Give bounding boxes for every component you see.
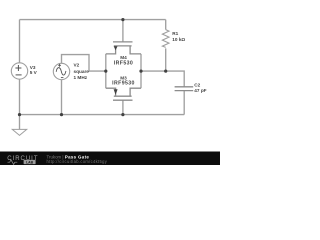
voltage source V2	[53, 63, 69, 79]
V2 labels	[74, 62, 90, 80]
junction V3 / ground rail	[18, 113, 21, 116]
svg-text:IRF530: IRF530	[114, 61, 133, 67]
MOSFET M3 IRF9530	[106, 88, 141, 100]
junction M3 gate / ground rail	[121, 113, 124, 116]
R1 labels	[172, 31, 185, 42]
wire V3 top lead	[19, 20, 21, 63]
junction pass-gate output node	[139, 70, 142, 73]
svg-text:C2: C2	[194, 83, 200, 88]
wire bottom rail	[20, 114, 185, 116]
junction V2 / ground rail	[60, 113, 63, 116]
M4 arrow	[114, 46, 118, 50]
svg-text:http://circuitlab.com/c4kt5gy: http://circuitlab.com/c4kt5gy	[47, 159, 108, 164]
resistor R1	[162, 30, 169, 48]
svg-text:M4: M4	[120, 55, 127, 60]
junction R1 / output wire	[164, 70, 167, 73]
capacitor C2	[175, 87, 194, 91]
svg-text:R1: R1	[172, 31, 178, 36]
junction M4 gate / top rail	[121, 18, 124, 21]
wire pass-gate right vertical	[140, 54, 142, 88]
C2 labels	[194, 83, 206, 94]
V3 labels	[30, 65, 38, 75]
svg-text:V2: V2	[74, 62, 80, 67]
ground	[12, 129, 26, 135]
wire R1 bottom lead	[165, 48, 167, 71]
logo LAB box	[24, 160, 36, 164]
M3 arrow	[114, 89, 118, 95]
MOSFET M4 IRF530	[106, 42, 141, 54]
svg-text:1 MHz: 1 MHz	[74, 75, 88, 80]
logo waveform	[8, 160, 18, 165]
wire pass-gate left vertical	[105, 54, 107, 88]
wire top rail	[20, 19, 166, 21]
wire V2 top loop	[62, 55, 106, 72]
svg-text:LAB: LAB	[26, 160, 34, 164]
wire ground stub	[19, 115, 21, 130]
footer bar	[0, 152, 220, 166]
svg-text:5 V: 5 V	[30, 70, 38, 75]
svg-text:square: square	[74, 69, 90, 74]
svg-text:10 kΩ: 10 kΩ	[172, 37, 185, 42]
svg-text:47 pF: 47 pF	[194, 88, 206, 93]
svg-text:IRF9530: IRF9530	[112, 81, 135, 87]
wire M3 gate stub	[122, 100, 124, 114]
M4 labels	[114, 55, 133, 66]
wire M4 gate stub	[122, 20, 124, 42]
junction pass-gate input node	[104, 70, 107, 73]
wire C2 bottom lead	[183, 91, 185, 115]
wire R1 top lead	[165, 20, 167, 30]
wire V3 bottom lead	[19, 79, 21, 114]
wire V2 bottom lead	[61, 80, 63, 115]
M3 labels	[112, 75, 135, 86]
wire output node	[141, 71, 184, 87]
voltage source V3	[11, 63, 27, 79]
